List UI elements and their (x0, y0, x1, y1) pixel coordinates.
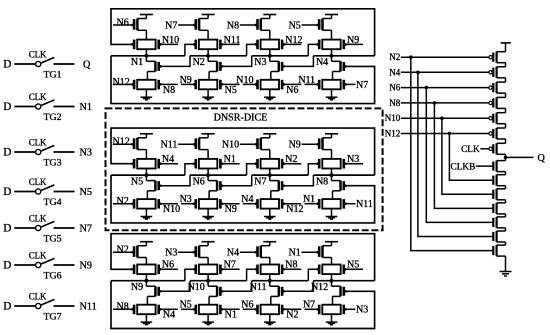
svg-text:N12: N12 (113, 77, 130, 88)
wire: cross-couple N1 rail to col2 upper-box left gate (185, 44, 195, 55)
stacked transistor upper box (bottom block col4, gates N11/N5) (322, 265, 340, 275)
wire: TG1 input (14, 63, 35, 65)
wire: node N3 rail (252, 55, 309, 57)
VDD rail (middle (DNSR-DICE) block col3) (263, 133, 276, 135)
wire: TG5 output (54, 227, 75, 229)
svg-text:N6: N6 (241, 300, 253, 311)
wire: series connection (505, 228, 507, 231)
svg-text:N6: N6 (389, 83, 400, 93)
wire: TG2 input (14, 106, 35, 108)
wire: N10 input line (401, 117, 489, 119)
svg-text:N8: N8 (316, 176, 328, 187)
pmos pull-up (bottom block col2, gate N3) (199, 245, 208, 247)
ground (middle (DNSR-DICE) block col4) (326, 216, 338, 218)
gate lead N8 (bottom block col3) (283, 268, 301, 270)
stacked transistor upper box (middle (DNSR-DICE) block col1, gates N8/N4) (137, 159, 155, 169)
stacked transistor upper box (middle (DNSR-DICE) block col3, gates N6/N2) (261, 159, 279, 169)
svg-text:N5: N5 (131, 176, 143, 187)
svg-text:N12: N12 (285, 35, 302, 46)
wire: node N8 rail (313, 174, 374, 176)
wire: TG6 input (14, 264, 35, 266)
wire: lower feedback wrap (top block, node N1 rail to col4 NMOS gate) (111, 56, 375, 104)
junction dot upper-box left gate (top col1) (131, 43, 134, 46)
stacked transistor lower box (top block col2, gates N9/N5) (199, 80, 217, 90)
svg-text:N8: N8 (227, 20, 239, 31)
svg-text:N12: N12 (113, 137, 130, 148)
nmos pull-down (bottom block col2, gate N11) (207, 281, 209, 287)
svg-text:D: D (3, 59, 11, 71)
gate lead N12 (top block col1) (113, 83, 133, 85)
junction N6 drop (425, 86, 429, 90)
svg-text:D: D (3, 186, 11, 198)
VDD rail (top block col3) (263, 14, 276, 16)
wire: cross-couple col1 NMOS gate to node N6 rail (160, 175, 190, 186)
nmos M7N (output stage, gate N2) (492, 246, 494, 255)
switch contact TG2 (36, 104, 41, 109)
wire: upper feedback wrap (bottom block, node N12 rail to col1 stacked-gate) (111, 234, 375, 281)
ground (top block col3) (264, 96, 276, 98)
junction N12 drop (448, 132, 452, 136)
gate lead N12 (top block col3) (283, 43, 301, 45)
svg-text:N9: N9 (289, 140, 301, 151)
svg-text:N6: N6 (286, 85, 298, 96)
svg-text:N2: N2 (117, 245, 129, 256)
svg-text:N4: N4 (162, 154, 174, 165)
wire: series connection (505, 172, 507, 175)
wire: cross-couple col3 NMOS gate to node N4 rail (283, 56, 313, 67)
VDD rail (middle (DNSR-DICE) block col4) (325, 133, 338, 135)
gate lead N7 (bottom block col4) (305, 308, 319, 310)
nmos pull-down (top block col1, gate N2) (145, 56, 147, 62)
svg-text:N8: N8 (285, 260, 297, 271)
gate lead N10 (top block col1) (160, 43, 178, 45)
gate lead N2 (middle (DNSR-DICE) block col1) (113, 203, 133, 205)
switch contact TG6 (36, 262, 41, 267)
svg-text:N8: N8 (163, 85, 175, 96)
gate lead N6 (bottom block col3) (243, 308, 257, 310)
switch contact TG3 (36, 149, 41, 154)
svg-text:N5: N5 (180, 300, 192, 311)
wire: TG6 output (54, 264, 75, 266)
svg-text:TG7: TG7 (43, 312, 61, 323)
junction dot upper-box left gate (bottom col1) (131, 268, 134, 271)
gate lead N5 (top block col2) (221, 83, 224, 86)
pmos pull-up (bottom block col1, gate N2) (137, 245, 146, 247)
switch lever TG6 (41, 258, 54, 264)
stacked transistor upper box (top block col2, gates N1/N11) (199, 40, 217, 50)
wire: cross-couple col2 NMOS gate to node N3 rail (222, 56, 252, 67)
nmos pull-down (top block col2, gate N3) (207, 56, 209, 62)
svg-text:N4: N4 (227, 248, 239, 259)
junction dot NMOS gate (bottom col1) (159, 290, 162, 293)
junction dot NMOS gate (bottom col2) (221, 290, 224, 293)
nmos pull-down (bottom block col1, gate N10) (145, 281, 147, 287)
gate lead N1 (bottom block col4) (302, 251, 319, 253)
wire: TG3 output (54, 151, 75, 153)
svg-text:N10: N10 (222, 140, 239, 151)
gate lead N3 (bottom block col2) (178, 251, 195, 253)
svg-text:N4: N4 (163, 310, 175, 321)
wire: series connection (505, 78, 507, 82)
gate lead N10 (top block col3) (243, 83, 257, 85)
nmos pull-down (middle (DNSR-DICE) block col2, gate N7) (207, 175, 209, 181)
stacked transistor lower box (bottom block col2, gates N5/N1) (199, 305, 217, 315)
gate lead N1 (middle (DNSR-DICE) block col4) (305, 203, 319, 205)
wire: node N5 rail (111, 174, 185, 176)
VDD rail (bottom block col2) (202, 241, 215, 243)
junction dot NMOS gate (middle (DNSR-DICE) col2) (221, 184, 224, 187)
gate lead N8 (bottom block col1) (113, 308, 133, 310)
wire: N2 input line (401, 56, 489, 58)
svg-text:N3: N3 (165, 248, 177, 259)
wire: cross-couple N3 rail to col4 upper-box left gate (308, 44, 318, 55)
junction dot upper-box left gate (bottom col2) (193, 268, 196, 271)
junction dot NMOS gate (top col2) (221, 65, 224, 68)
nmos M2N (output stage, gate N12) (492, 176, 494, 185)
wire: cross-couple col1 NMOS gate to node N10 rail (160, 281, 190, 292)
stacked transistor lower box (middle (DNSR-DICE) block col2, gates N3/N9) (199, 199, 217, 209)
wire: node N10 rail (190, 280, 247, 282)
svg-text:CLK: CLK (29, 250, 47, 260)
gate lead N1 (middle (DNSR-DICE) block col2) (222, 163, 240, 165)
pmos pull-up (bottom block col3, gate N4) (261, 245, 270, 247)
gate lead N6 (top block col3) (282, 83, 285, 86)
junction N2 drop (409, 55, 413, 59)
wire: series connection (505, 108, 507, 112)
svg-text:CLK: CLK (29, 49, 47, 59)
nmos pull-down (middle (DNSR-DICE) block col4, gate N5) (331, 175, 333, 181)
wire: cross-couple N2 rail to col3 upper-box left gate (247, 44, 257, 55)
svg-text:N10: N10 (162, 35, 179, 46)
pmos pull-up (top block col3, gate N8) (261, 18, 270, 20)
stacked transistor lower box (middle (DNSR-DICE) block col4, gates N1/N11) (322, 199, 340, 209)
svg-text:N3: N3 (180, 194, 192, 205)
dashed box DNSR-DICE (106, 108, 383, 230)
node N4 junction (330, 54, 334, 58)
stacked transistor lower box (top block col1, gates N12/N8) (137, 80, 155, 90)
switch lever TG7 (41, 299, 54, 305)
wire: node N1 rail (111, 55, 185, 57)
pmos M6P (output stage, gate N12) (489, 132, 492, 135)
wire: N6 vertical drop to NMOS gate (426, 88, 492, 223)
wire: TG4 output (54, 191, 75, 193)
svg-text:N10: N10 (188, 282, 205, 293)
node N10 junction (206, 279, 210, 283)
gate lead N4 (bottom block col3) (240, 251, 257, 253)
VDD rail (bottom block col3) (263, 241, 276, 243)
stacked transistor upper box (top block col4, gates N3/N9) (322, 40, 340, 50)
gate lead N9 (top block col2) (181, 83, 195, 85)
gate lead N6 (bottom block col1) (160, 268, 178, 270)
wire: N4 vertical drop to NMOS gate (418, 72, 493, 236)
svg-text:CLK: CLK (29, 291, 47, 301)
switch contact TG7 (36, 303, 41, 308)
ground (bottom block col3) (264, 321, 276, 323)
gate lead N12 (middle (DNSR-DICE) block col3) (282, 202, 285, 205)
svg-text:CLK: CLK (461, 145, 480, 155)
node N12 junction (330, 279, 334, 283)
VDD rail (middle (DNSR-DICE) block col2) (202, 133, 215, 135)
stacked transistor lower box (bottom block col3, gates N6/N2) (261, 305, 279, 315)
ground (top block col4) (326, 96, 338, 98)
svg-text:N4: N4 (389, 67, 400, 77)
wire: node N12 rail (313, 280, 374, 282)
junction dot NMOS gate (middle (DNSR-DICE) col3) (282, 184, 285, 187)
wire: series connection (505, 93, 507, 97)
svg-text:Q: Q (83, 59, 91, 70)
svg-text:N11: N11 (161, 140, 178, 151)
junction dot NMOS gate (middle (DNSR-DICE) col1) (159, 184, 162, 187)
ground (output stage) (500, 271, 512, 273)
VDD rail (output stage) (501, 42, 511, 44)
gate lead N11 (middle (DNSR-DICE) block col4) (344, 202, 347, 205)
svg-text:N12: N12 (311, 282, 328, 293)
svg-text:N7: N7 (254, 176, 266, 187)
junction dot upper-box left gate (top col4) (316, 43, 319, 46)
wire: cross-couple N9 rail to col2 upper-box left gate (185, 269, 195, 280)
stacked transistor lower box (middle (DNSR-DICE) block col1, gates N2/N10) (137, 199, 155, 209)
svg-text:N1: N1 (80, 102, 92, 113)
gate lead N1 (bottom block col2) (221, 308, 224, 311)
svg-text:N11: N11 (298, 75, 315, 86)
junction dot upper-box left gate (middle (DNSR-DICE) col2) (193, 162, 196, 165)
gate lead N5 (bottom block col4) (345, 268, 363, 270)
switch lever TG5 (41, 221, 54, 227)
pmos pull-up (middle (DNSR-DICE) block col3, gate N10) (261, 137, 270, 139)
svg-text:N3: N3 (356, 305, 368, 316)
wire: node N2 rail (190, 55, 247, 57)
svg-text:N10: N10 (236, 75, 253, 86)
pmos pull-up (top block col1, gate N6) (137, 18, 146, 20)
svg-text:N11: N11 (80, 301, 97, 312)
ground (bottom block col4) (326, 321, 338, 323)
svg-text:N11: N11 (250, 282, 267, 293)
junction N4 drop (416, 71, 420, 75)
junction N8 drop (433, 101, 437, 105)
stacked transistor lower box (bottom block col1, gates N8/N4) (137, 305, 155, 315)
gate lead N11 (top block col4) (305, 83, 319, 85)
svg-text:N7: N7 (356, 80, 368, 91)
stacked transistor lower box (middle (DNSR-DICE) block col3, gates N4/N12) (261, 199, 279, 209)
gate lead N11 (middle (DNSR-DICE) block col2) (178, 143, 195, 145)
pmos M5P (output stage, gate N10) (489, 117, 492, 120)
pmos pull-up (middle (DNSR-DICE) block col2, gate N11) (199, 137, 208, 139)
wire: cross-couple N11 rail to col4 upper-box left gate (308, 269, 318, 280)
stacked transistor upper box (bottom block col3, gates N10/N8) (261, 265, 279, 275)
svg-text:N3: N3 (80, 147, 92, 158)
gate lead N4 (middle (DNSR-DICE) block col3) (243, 203, 257, 205)
wire: TG2 output (54, 106, 75, 108)
gate lead N9 (top block col4) (345, 43, 363, 45)
gate lead N4 (middle (DNSR-DICE) block col1) (160, 163, 178, 165)
pmos pull-up (bottom block col4, gate N1) (323, 245, 332, 247)
wire: to ground (505, 256, 507, 271)
node Q junction (504, 156, 508, 160)
svg-text:TG1: TG1 (43, 70, 61, 81)
VDD rail (top block col4) (325, 14, 338, 16)
gate lead N2 (bottom block col1) (113, 251, 133, 253)
nmos M6N (output stage, gate N4) (492, 232, 494, 241)
svg-text:N12: N12 (385, 129, 401, 139)
svg-text:N9: N9 (347, 35, 359, 46)
svg-text:N4: N4 (316, 57, 328, 68)
node N2 junction (206, 54, 210, 58)
svg-text:N6: N6 (162, 260, 174, 271)
junction N10 drop (440, 116, 444, 120)
svg-text:N3: N3 (347, 154, 359, 165)
svg-text:CLK: CLK (29, 213, 47, 223)
pmos M2P (output stage, gate N4) (489, 71, 492, 74)
wire: cross-couple col2 NMOS gate to node N7 rail (222, 175, 252, 186)
stacked transistor lower box (bottom block col4, gates N7/N3) (322, 305, 340, 315)
nmos pull-down (top block col4, gate N1) (331, 56, 333, 62)
wire: node N7 rail (252, 174, 309, 176)
wire: cross-couple col1 NMOS gate to node N2 rail (160, 56, 190, 67)
junction dot upper-box left gate (top col2) (193, 43, 196, 46)
wire: cross-couple col3 NMOS gate to node N8 rail (283, 175, 313, 186)
node N8 junction (330, 173, 334, 177)
pmos pull-up (top block col2, gate N7) (199, 18, 208, 20)
gate lead N3 (middle (DNSR-DICE) block col4) (345, 163, 363, 165)
svg-text:N2: N2 (286, 310, 298, 321)
gate lead N2 (bottom block col3) (282, 308, 285, 311)
gate lead N4 (bottom block col1) (159, 308, 162, 311)
wire: series connection (505, 242, 507, 245)
gate lead N7 (bottom block col2) (222, 268, 240, 270)
switch contact TG5 (36, 225, 41, 230)
node N9 junction (144, 279, 148, 283)
switch lever TG4 (41, 185, 54, 191)
wire: node N4 rail (313, 55, 374, 57)
nmos pull-down (top block col3, gate N4) (269, 56, 271, 62)
junction dot upper-box left gate (bottom col3) (255, 268, 258, 271)
junction dot NMOS gate (bottom col4) (344, 290, 347, 293)
gate lead N5 (bottom block col2) (181, 308, 195, 310)
junction dot upper-box left gate (middle (DNSR-DICE) col3) (255, 162, 258, 165)
svg-text:D: D (3, 147, 11, 159)
junction dot NMOS gate (bottom col3) (282, 290, 285, 293)
nmos M3N (output stage, gate N10) (492, 190, 494, 199)
junction dot NMOS gate (middle (DNSR-DICE) col4) (344, 184, 347, 187)
svg-text:N12: N12 (286, 204, 303, 215)
wire: cross-couple N6 rail to col3 upper-box left gate (247, 164, 257, 175)
pmos M4P (output stage, gate N8) (489, 101, 492, 104)
svg-text:DNSR-DICE: DNSR-DICE (214, 112, 268, 123)
nmos pull-down (middle (DNSR-DICE) block col3, gate N8) (269, 175, 271, 181)
svg-text:N9: N9 (225, 204, 237, 215)
svg-text:N9: N9 (80, 260, 92, 271)
gate lead N7 (top block col4) (344, 83, 347, 86)
svg-text:N7: N7 (80, 223, 92, 234)
gate lead N9 (middle (DNSR-DICE) block col2) (221, 202, 224, 205)
svg-text:N7: N7 (165, 20, 177, 31)
switch lever TG1 (41, 57, 54, 63)
svg-text:N2: N2 (285, 154, 297, 165)
wire: TG4 input (14, 191, 35, 193)
wire: TG7 output (54, 305, 75, 307)
nmos M1N (output stage, gate CLKB) (492, 162, 494, 171)
junction dot upper-box left gate (bottom col4) (316, 268, 319, 271)
svg-text:TG6: TG6 (43, 271, 61, 282)
VDD rail (top block col1) (140, 14, 153, 16)
junction dot NMOS gate (top col1) (159, 65, 162, 68)
wire: cross-couple col3 NMOS gate to node N12 rail (283, 281, 313, 292)
node N11 junction (268, 279, 272, 283)
switch lever TG3 (41, 145, 54, 151)
svg-text:TG2: TG2 (43, 112, 61, 123)
VDD rail (top block col2) (202, 14, 215, 16)
wire: N8 input line (401, 102, 489, 104)
wire: cross-couple N10 rail to col3 upper-box left gate (247, 269, 257, 280)
pmos M1P (output stage, gate N2) (489, 56, 492, 59)
svg-text:N6: N6 (117, 17, 129, 28)
gate lead N11 (top block col2) (222, 43, 240, 45)
wire: node N6 rail (190, 174, 247, 176)
svg-text:N2: N2 (117, 196, 129, 207)
wire: cross-couple N7 rail to col4 upper-box left gate (308, 164, 318, 175)
stacked transistor upper box (top block col3, gates N2/N12) (261, 40, 279, 50)
wire: CLKB gate lead (476, 165, 493, 167)
junction dot NMOS gate (top col3) (282, 65, 285, 68)
junction dot upper-box left gate (middle (DNSR-DICE) col4) (316, 162, 319, 165)
nmos pull-down (bottom block col4, gate N9) (331, 281, 333, 287)
svg-text:N10: N10 (385, 113, 401, 123)
svg-text:N1: N1 (224, 154, 236, 165)
pmos pull-up (middle (DNSR-DICE) block col1, gate N12) (137, 137, 146, 139)
svg-text:D: D (3, 260, 11, 272)
VDD rail (middle (DNSR-DICE) block col1) (140, 133, 153, 135)
svg-text:N7: N7 (303, 300, 315, 311)
gate lead N2 (middle (DNSR-DICE) block col3) (283, 163, 301, 165)
wire: TG5 input (14, 227, 35, 229)
nmos pull-down (bottom block col3, gate N12) (269, 281, 271, 287)
ground (middle (DNSR-DICE) block col2) (202, 216, 214, 218)
svg-text:N3: N3 (254, 57, 266, 68)
wire: series connection (505, 139, 507, 143)
svg-text:D: D (3, 223, 11, 235)
svg-text:N8: N8 (389, 98, 400, 108)
svg-text:N10: N10 (163, 204, 180, 215)
svg-text:CLK: CLK (29, 177, 47, 187)
node N3 junction (268, 54, 272, 58)
wire: series connection (505, 186, 507, 189)
svg-text:TG4: TG4 (43, 197, 61, 208)
wire: cross-couple N5 rail to col2 upper-box left gate (185, 164, 195, 175)
VDD rail (bottom block col1) (140, 241, 153, 243)
svg-text:N9: N9 (131, 282, 143, 293)
node N7 junction (268, 173, 272, 177)
svg-text:CLKB: CLKB (451, 162, 476, 172)
svg-text:N7: N7 (224, 260, 236, 271)
wire: TG7 input (14, 305, 35, 307)
nmos M4N (output stage, gate N8) (492, 204, 494, 213)
svg-text:CLK: CLK (29, 137, 47, 147)
gate lead N5 (top block col4) (302, 24, 319, 26)
wire: upper feedback wrap (middle (DNSR-DICE) block, node N8 rail to col1 stacked-gate) (111, 128, 375, 175)
nmos M5N (output stage, gate N6) (492, 218, 494, 227)
wire: CLK pmos to Q node (505, 154, 507, 160)
gate lead N6 (top block col1) (113, 24, 133, 26)
wire: upper feedback wrap (top block, node N4 rail to col1 stacked-gate) (111, 9, 375, 56)
wire: Q output (506, 156, 534, 158)
switch contact TG4 (36, 189, 41, 194)
svg-text:D: D (3, 301, 11, 313)
VDD rail (bottom block col4) (325, 241, 338, 243)
node N6 junction (206, 173, 210, 177)
wire: N2 vertical drop to NMOS gate (411, 57, 493, 250)
stacked transistor upper box (middle (DNSR-DICE) block col2, gates N5/N1) (199, 159, 217, 169)
node N5 junction (144, 173, 148, 177)
